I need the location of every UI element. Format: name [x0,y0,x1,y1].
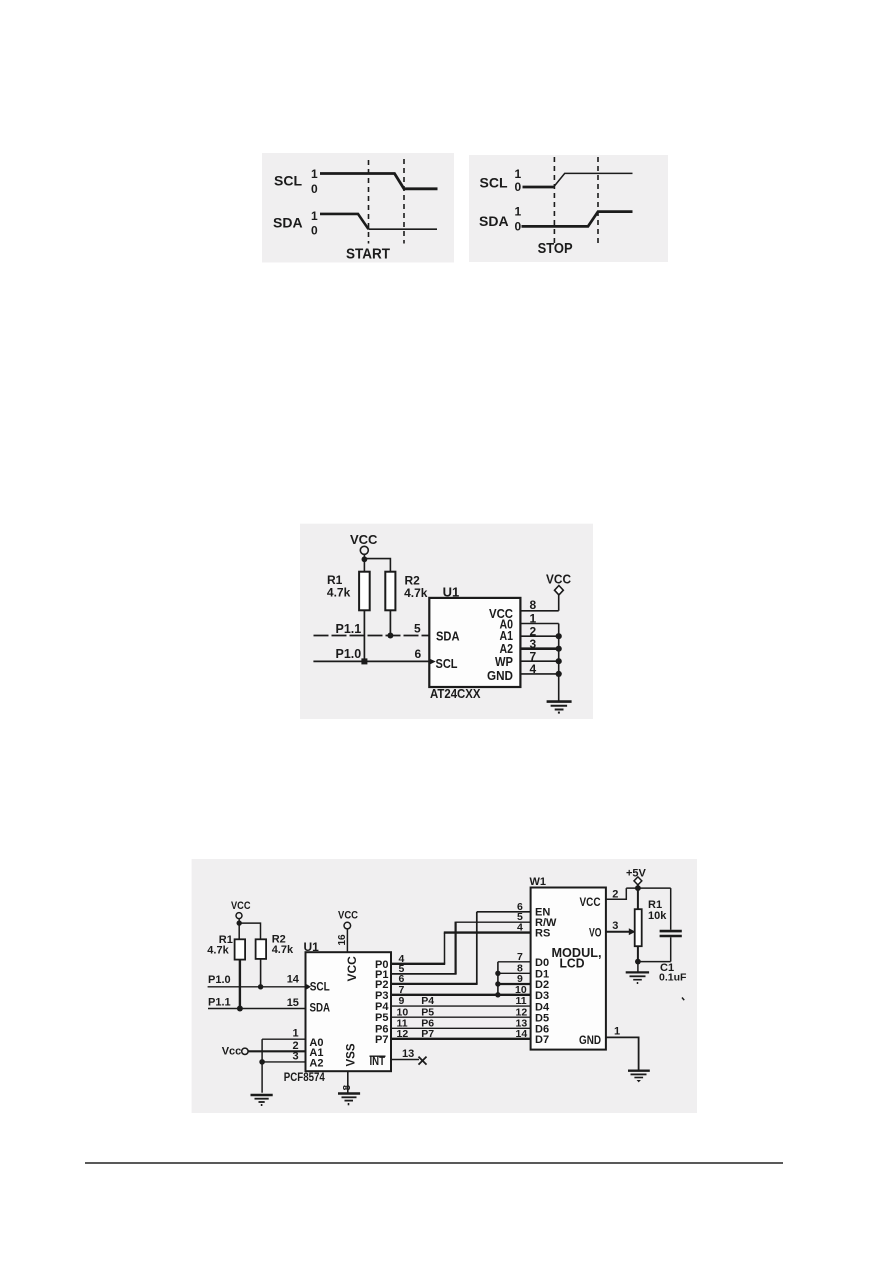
svg-text:13: 13 [402,1048,414,1060]
ground symbol (AT24CXX) [547,702,572,714]
svg-text:SCL: SCL [274,173,302,189]
svg-text:16: 16 [337,934,348,946]
svg-text:A1: A1 [500,629,514,643]
svg-text:4.7k: 4.7k [404,586,428,600]
SDA waveform high segment (START) [320,214,369,229]
svg-text:PCF8574: PCF8574 [284,1072,326,1084]
svg-text:3: 3 [293,1050,299,1062]
wire D0-D3 tie bus [497,962,499,995]
wire address tie bus to ground [261,1039,263,1093]
wire EN (LCD pin 6) [477,911,531,913]
wire +5V rail to capacitor branch [626,887,670,889]
svg-text:AT24CXX: AT24CXX [430,686,481,701]
svg-text:GND: GND [487,669,513,683]
wire LCD VCC pin 2 to +5V [606,888,626,899]
svg-text:VO: VO [589,925,602,939]
wire P1.1 to SDA pin 5 [314,635,430,637]
resistor R2 (bottom figure) [256,939,267,959]
svg-text:A2: A2 [309,1057,323,1069]
wire P2 riser to EN [476,912,478,984]
SCL waveform low segment (STOP) [523,186,554,189]
junction dot D1/bus [495,971,500,976]
SCL waveform trace (START) [320,174,438,189]
wire VCC to R1 top [238,919,240,940]
svg-text:4.7k: 4.7k [207,944,229,956]
power VCC (PCF8574 pin 16) [338,909,358,929]
wire VCC to pin 16 [346,929,348,952]
clock input arrow on SCL pin [430,659,436,665]
ground symbol (VSS) [338,1094,360,1106]
wire P5 to D5 (LCD pin 12) [391,1016,531,1018]
svg-text:WP: WP [495,655,513,669]
wire D1 (LCD pin 8) [498,972,531,974]
wire P3 to D3 (LCD pin 10) [391,994,531,996]
junction dot pot/C1 ground node [635,959,641,965]
svg-text:1: 1 [311,209,318,223]
svg-text:D0: D0 [535,957,549,969]
wire VCC to R1 top [363,554,365,572]
ground symbol (address pins) [251,1095,273,1106]
ground symbol (LCD) [628,1071,650,1083]
wire A2 pin 3 [262,1061,305,1063]
power VCC (chip supply) [546,572,572,595]
pin name INT with overline [370,1054,386,1068]
svg-text:4.7k: 4.7k [327,585,351,599]
svg-text:10: 10 [515,984,527,996]
SDA waveform low segment (START) [369,228,438,230]
svg-text:GND: GND [579,1033,601,1047]
junction dot R2/P1.1 [387,633,393,639]
junction dot A2/bus [259,1059,265,1065]
node Vcc (address pins) [222,1046,248,1058]
svg-text:10k: 10k [648,910,667,922]
svg-text:0.1uF: 0.1uF [659,971,687,983]
dashed time marker t1 (START) [368,160,370,244]
capacitor C1 [660,888,682,962]
wire R1 bottom to P1.0 net [363,610,365,661]
wire R2 bottom to P1.0 net [260,959,262,987]
junction dot R1/P1.1 [237,1006,243,1012]
wire VCC node to R2 top [239,923,260,939]
wire pin 2 A1 [520,635,558,637]
scan background panel (AT24CXX figure) [300,524,593,719]
svg-text:P1.0: P1.0 [336,647,362,661]
resistor R1 [359,572,370,611]
svg-text:VCC: VCC [338,909,358,921]
wire P4 to D4 (LCD pin 11) [391,1005,531,1007]
svg-text:VCC: VCC [231,900,251,912]
wire pin 3 A2 [520,647,558,650]
svg-text:14: 14 [516,1028,528,1040]
wire ground node down [637,962,639,972]
SCL waveform high segment (STOP) [554,173,633,187]
wire RS (LCD pin 4) [444,931,531,933]
wire D2 (LCD pin 9) [498,983,531,985]
svg-text:SCL: SCL [436,656,458,671]
svg-text:0: 0 [311,223,318,237]
wire C1 bottom to ground node [638,961,671,963]
svg-text:VCC: VCC [580,895,601,909]
svg-text:VCC: VCC [546,572,572,587]
wire LCD GND pin 1 to ground [606,1037,639,1070]
wire P0 horizontal segment [391,963,445,965]
svg-text:14: 14 [287,974,300,986]
svg-text:LCD: LCD [560,957,585,971]
SDA waveform trace (STOP) [522,212,633,227]
power VCC (pull-up rail, bottom figure) [231,900,251,919]
dashed time marker t1 (STOP) [553,157,555,245]
wiper arrow of potentiometer [629,928,636,935]
svg-text:D3: D3 [535,990,549,1002]
wire P2 horizontal segment [391,983,478,985]
dashed time marker t2 (STOP) [597,157,599,245]
junction dot GND/bus [556,671,562,677]
svg-text:START: START [346,247,390,263]
power VCC (pull-up rail) [350,532,378,554]
wire potentiometer bottom to ground node [637,946,639,961]
svg-text:0: 0 [311,182,318,196]
wire P1.0 to SCL pin 14 [208,986,306,988]
svg-text:SDA: SDA [310,1000,331,1014]
wire P7 to D7 (LCD pin 14) [391,1038,531,1040]
svg-text:SDA: SDA [436,628,460,643]
wire VSS pin 8 to ground [347,1071,349,1093]
svg-text:1: 1 [515,205,522,219]
IC U1 AT24CXX body [429,598,520,687]
svg-text:15: 15 [287,997,299,1009]
wire R2 bottom to P1.1 net [389,610,391,635]
potentiometer R1 body [635,909,642,946]
wire P1.1 to SDA pin 15 [208,1008,306,1010]
svg-text:SDA: SDA [479,213,509,229]
wire P0 riser to RS [444,933,446,964]
resistor R2 [385,572,395,611]
svg-text:4.7k: 4.7k [272,944,294,956]
svg-text:0: 0 [515,180,522,194]
svg-text:RS: RS [535,927,550,939]
svg-text:P1.1: P1.1 [336,622,362,636]
junction dot VCC node [237,920,242,925]
page footer rule [85,1162,783,1164]
junction dot R2/P1.0 [258,984,263,989]
svg-text:6: 6 [415,647,422,661]
junction dot R1/P1.0 [361,658,367,664]
dashed time marker t2 (START) [403,159,405,244]
svg-text:A2: A2 [500,642,514,656]
svg-text:P1.1: P1.1 [208,997,231,1009]
svg-text:U1: U1 [443,585,460,600]
junction dot WP/bus [556,658,562,664]
scan background panel (START figure) [262,153,454,263]
resistor R1 (bottom figure) [235,939,246,959]
wire A0 pin 1 [262,1038,305,1040]
svg-text:SCL: SCL [480,175,508,191]
svg-text:3: 3 [612,920,618,932]
wire P6 to D6 (LCD pin 13) [391,1027,531,1029]
wire R1 bottom to P1.1 net [239,960,241,1009]
wire pin 8 VCC [520,610,558,612]
wire P1.0 to SCL pin 6 [313,660,429,662]
power +5V [626,867,647,885]
junction dot A2/bus [556,646,562,652]
scan background panel (PCF8574/LCD figure) [192,859,697,1113]
wire P1 horizontal segment [391,973,457,975]
wire A1 pin 2 to Vcc [248,1050,306,1052]
svg-text:U1: U1 [304,940,320,954]
svg-text:VCC: VCC [350,532,378,547]
wire VCC symbol to pin 8 [558,595,560,611]
svg-text:SCL: SCL [310,979,330,993]
svg-text:STOP: STOP [538,241,573,257]
wire INT pin 13 (unconnected) [391,1059,419,1061]
junction dot D2/bus [495,981,500,986]
wire R/W (LCD pin 5) [456,921,531,923]
svg-text:Vcc: Vcc [222,1046,242,1058]
svg-text:5: 5 [414,622,421,636]
svg-text:8: 8 [342,1085,353,1091]
wire VO to potentiometer wiper [606,931,630,933]
svg-text:W1: W1 [530,876,547,888]
wire D0 (LCD pin 7) [498,961,531,963]
svg-text:1: 1 [311,167,318,181]
svg-text:D7: D7 [535,1034,549,1046]
svg-text:P7: P7 [375,1034,388,1046]
wire pin 1 A0 [520,623,558,625]
svg-text:1: 1 [614,1026,620,1038]
wire VCC node to R2 top [364,559,390,572]
svg-text:P3: P3 [375,990,388,1002]
scan background panel (STOP figure) [469,155,668,262]
wire pin 7 WP [520,660,558,662]
svg-text:1: 1 [293,1028,299,1040]
wire P1 riser to R/W [455,922,457,974]
svg-text:VSS: VSS [346,1043,358,1066]
clock input arrow on SCL pin [306,984,311,990]
svg-text:0: 0 [515,219,522,233]
wire pin 4 GND [520,673,558,675]
junction dot A1/bus [556,633,562,639]
wire +5V to potentiometer top [637,885,639,909]
stray scan mark [682,998,684,1001]
wire ground bus (A0/A1/A2/WP/GND) [558,624,560,701]
junction dot at VCC node [362,556,368,562]
svg-text:P1.0: P1.0 [208,974,231,986]
module W1 LCD body [531,888,606,1050]
svg-text:7: 7 [517,951,523,963]
junction dot D3/bus [495,992,500,997]
svg-text:VCC: VCC [345,956,359,982]
IC U1 PCF8574 body [306,952,392,1071]
svg-text:SDA: SDA [273,215,303,231]
no-connect X on INT [419,1057,427,1065]
ground symbol (potentiometer) [626,972,649,984]
svg-text:4: 4 [517,922,523,934]
junction dot +5V node [635,885,641,891]
